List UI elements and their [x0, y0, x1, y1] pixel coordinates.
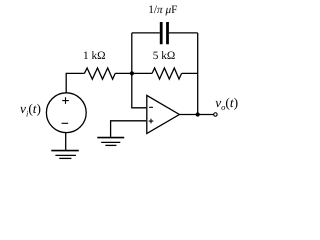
wire R1 to node A [115, 72, 132, 74]
svg-text:1/π μF: 1/π μF [148, 4, 177, 16]
voltage source plus sign [62, 97, 69, 104]
svg-text:1 kΩ: 1 kΩ [83, 50, 106, 62]
wire op-amp output [179, 114, 214, 116]
wire feedback vertical [197, 33, 199, 115]
wire source top to R1 [66, 73, 84, 93]
capacitor C1 plates [161, 22, 167, 44]
output terminal open circle [214, 113, 218, 117]
wire noninverting input to ground [111, 121, 147, 137]
ground G1 bars [97, 137, 124, 139]
svg-text:vo(t): vo(t) [215, 95, 238, 112]
resistor R2 left lead [132, 72, 152, 74]
op-amp plus sign [149, 119, 154, 124]
capacitor C1 right wire [169, 32, 198, 34]
voltage source ground stem [65, 132, 67, 150]
resistor R2 right lead [182, 72, 198, 74]
voltage source minus sign [62, 122, 69, 124]
output node dot [196, 112, 200, 116]
node A junction dot [130, 71, 134, 75]
resistor R2 zigzag [152, 68, 182, 79]
voltage source V1 circle [46, 93, 86, 133]
op-amp U1 triangle [147, 95, 180, 133]
op-amp minus sign [149, 106, 153, 108]
ground G2 bars [51, 150, 79, 152]
resistor R1 zigzag [84, 68, 115, 79]
wire node A vertical to inverting input [132, 33, 146, 108]
svg-text:vi(t): vi(t) [20, 101, 41, 118]
svg-text:5 kΩ: 5 kΩ [153, 50, 176, 62]
capacitor C1 left wire [132, 32, 160, 34]
